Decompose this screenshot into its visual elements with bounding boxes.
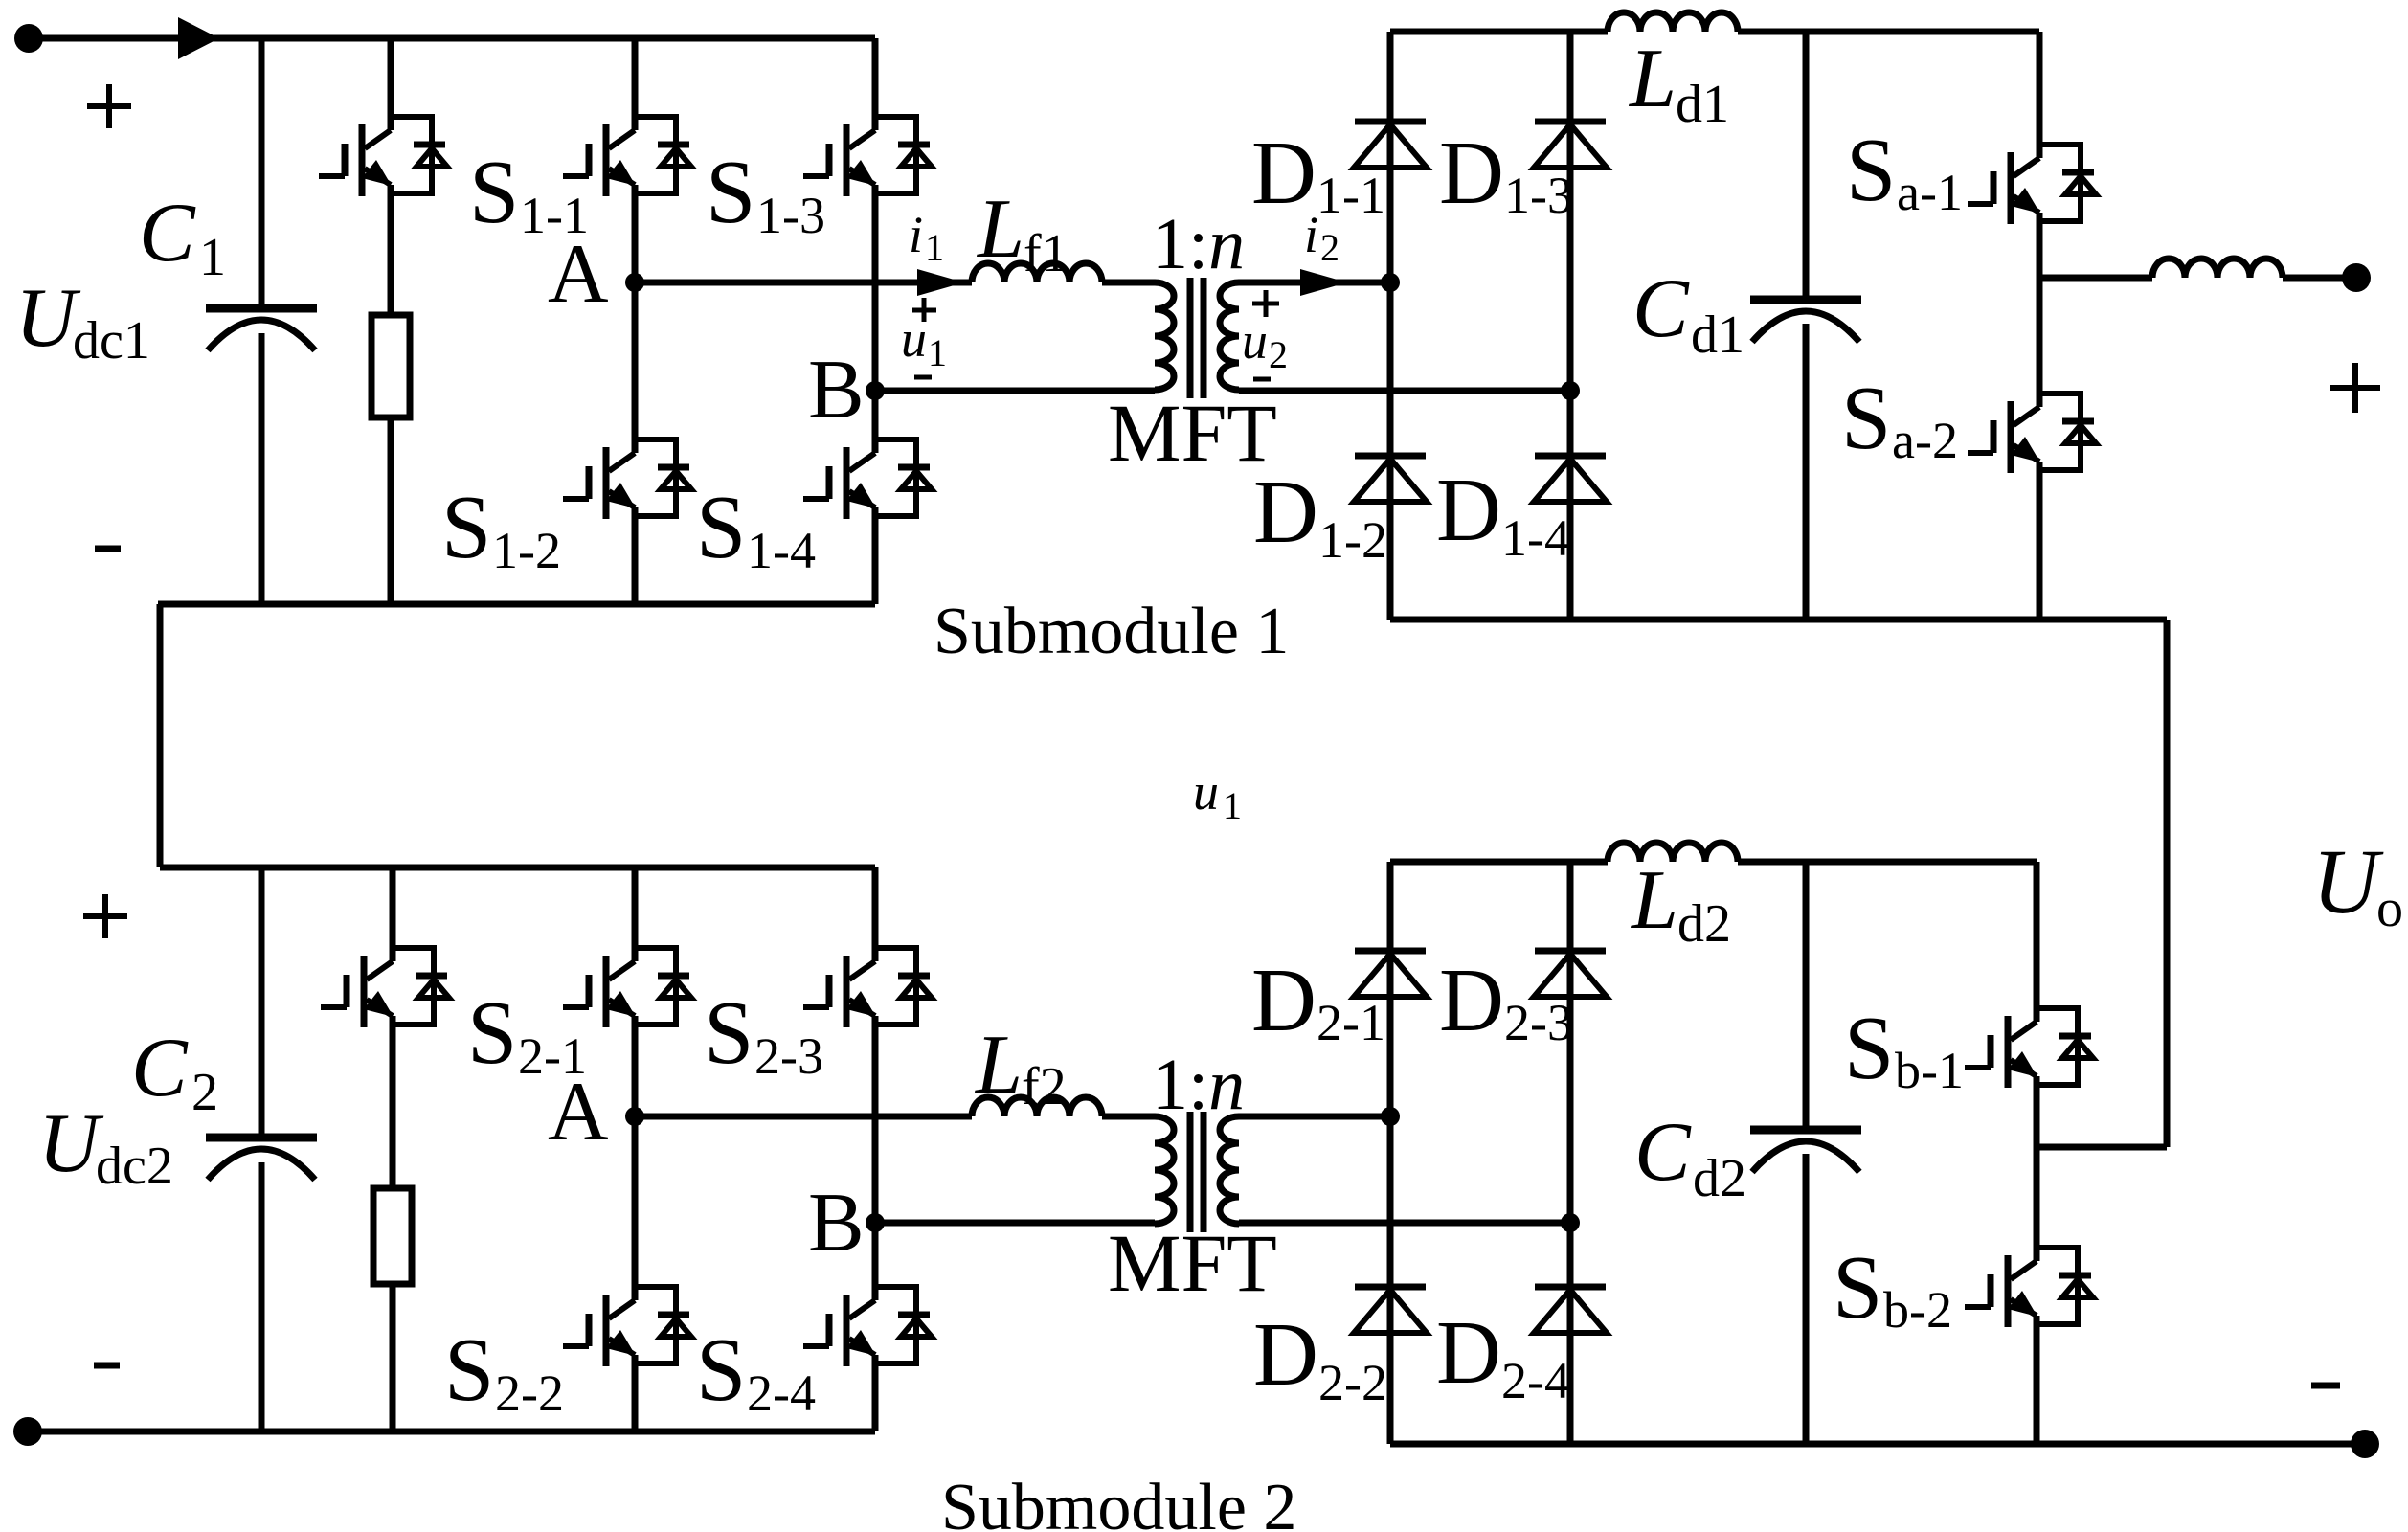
svg-text:1:n: 1:n xyxy=(1152,204,1245,284)
transistor: balancing IGBT 2 xyxy=(321,948,449,1027)
node: transformer1 secondary top junction xyxy=(1381,273,1400,292)
transistor Sa-1 xyxy=(1968,145,2096,224)
svg-text:1: 1 xyxy=(928,331,947,374)
plus sign Udc1 xyxy=(87,84,131,128)
svg-text:L: L xyxy=(974,1019,1023,1112)
wire: Lf1 to transformer 1 xyxy=(1102,280,1155,286)
transistor S1-3 xyxy=(803,117,932,196)
svg-text:1: 1 xyxy=(1223,784,1242,827)
svg-text:C: C xyxy=(1634,1106,1692,1199)
svg-text:b-1: b-1 xyxy=(1895,1042,1964,1099)
transformer 2 primary winding xyxy=(1155,1116,1174,1224)
svg-text:1-1: 1-1 xyxy=(1317,167,1385,224)
svg-text:1: 1 xyxy=(925,226,944,269)
transistor S2-1 xyxy=(563,948,691,1027)
transformer 1 core xyxy=(1190,278,1204,398)
wire: Cd2 branch xyxy=(1803,862,1810,1444)
svg-text:S: S xyxy=(441,478,491,577)
resistor: balancing resistor 1 xyxy=(371,315,410,417)
diode D1-4 xyxy=(1534,456,1607,502)
svg-text:Submodule 1: Submodule 1 xyxy=(934,595,1289,668)
svg-text:U: U xyxy=(38,1097,104,1190)
wire: node A2 to transformer 2 primary xyxy=(635,1114,972,1120)
svg-text:S: S xyxy=(706,143,755,242)
svg-text:S: S xyxy=(1846,121,1896,220)
wire: rectifier 1 top rail xyxy=(1390,29,2039,35)
svg-text:L: L xyxy=(1628,33,1677,125)
wire: leg B submodule 2 xyxy=(872,867,879,1431)
svg-text:2-4: 2-4 xyxy=(1501,1352,1570,1409)
capacitor C2 xyxy=(206,1138,317,1180)
transistor Sb-2 xyxy=(1965,1248,2093,1327)
svg-text:u: u xyxy=(1193,763,1219,821)
minus sign Udc2 xyxy=(94,1363,120,1369)
svg-text:C: C xyxy=(1632,262,1690,355)
wire: series interconnect submodule1 to submodule2 xyxy=(157,604,164,867)
node: output positive terminal xyxy=(2342,263,2371,292)
capacitor C1 xyxy=(206,308,317,350)
svg-text:B: B xyxy=(808,1177,865,1270)
svg-text:A: A xyxy=(548,1066,609,1159)
svg-text:2-2: 2-2 xyxy=(495,1364,564,1422)
svg-text:D: D xyxy=(1253,462,1318,562)
svg-text:Submodule 2: Submodule 2 xyxy=(941,1471,1296,1532)
diode D1-1 xyxy=(1354,122,1427,168)
node B submodule 1 xyxy=(866,381,885,400)
svg-text:u: u xyxy=(901,310,927,368)
svg-text:i: i xyxy=(909,206,923,263)
wire: leg A submodule 1 xyxy=(632,38,639,604)
wire: C1 branch xyxy=(259,38,265,604)
svg-text:D: D xyxy=(1439,951,1504,1050)
node: transformer1 secondary bottom junction xyxy=(1561,381,1580,400)
svg-text:MFT: MFT xyxy=(1108,387,1277,479)
svg-text:D: D xyxy=(1439,124,1504,223)
resistor: balancing resistor 2 xyxy=(373,1188,412,1284)
inductor Lf2 xyxy=(972,1097,1102,1116)
diode D2-4 xyxy=(1534,1287,1607,1333)
wire: submodule 1 top rail xyxy=(29,35,875,42)
plus sign Udc2 xyxy=(83,894,127,938)
minus sign u2 xyxy=(1253,377,1271,382)
svg-text:S: S xyxy=(696,1320,746,1420)
svg-text:C: C xyxy=(131,1022,189,1115)
svg-text:2-3: 2-3 xyxy=(1504,994,1573,1051)
wire: transformer 2 secondary top to rectifier 2 xyxy=(1239,1114,1390,1120)
wire: Lf2 to transformer 2 xyxy=(1102,1114,1155,1120)
svg-text:b-2: b-2 xyxy=(1883,1281,1952,1339)
wire: leg A submodule 2 xyxy=(632,867,639,1431)
svg-text:dc2: dc2 xyxy=(96,1137,173,1196)
transistor S1-4 xyxy=(803,439,932,519)
svg-text:d1: d1 xyxy=(1676,75,1729,134)
wire: transformer 1 secondary top to rectifier xyxy=(1239,280,1390,286)
wire: rectifier 2 right leg xyxy=(1567,862,1574,1444)
diode D1-2 xyxy=(1354,456,1427,502)
transformer 2 secondary winding xyxy=(1220,1116,1239,1224)
svg-text:f2: f2 xyxy=(1022,1057,1067,1116)
svg-text:1-2: 1-2 xyxy=(1318,511,1387,569)
wire: node B2 to transformer 2 primary bottom xyxy=(875,1220,1155,1227)
wire: balancing branch 1 xyxy=(388,38,394,604)
wire: rectifier 2 left leg xyxy=(1387,862,1394,1444)
svg-text:o: o xyxy=(2376,879,2403,938)
current direction arrow on input rail xyxy=(178,17,219,59)
node: transformer2 secondary bottom junction xyxy=(1561,1213,1580,1232)
wire: rectifier 1 right leg xyxy=(1567,32,1574,620)
wire: submodule 2 top rail xyxy=(160,865,875,871)
transistor Sb-1 xyxy=(1965,1008,2093,1088)
wire: balancing branch 2 xyxy=(390,867,396,1431)
svg-text:d2: d2 xyxy=(1677,894,1731,954)
svg-text:1-4: 1-4 xyxy=(747,522,816,579)
transistor S1-1 xyxy=(563,117,691,196)
svg-text:S: S xyxy=(696,478,746,577)
node: DC input 2 negative terminal xyxy=(13,1417,42,1446)
wire: Sa midpoint to output inductor xyxy=(2039,275,2356,282)
wire: node B to transformer 1 primary bottom xyxy=(875,388,1155,394)
plus sign u2 xyxy=(1252,290,1279,317)
svg-text:U: U xyxy=(2312,830,2384,933)
arrow i1 xyxy=(917,269,964,296)
svg-text:2-3: 2-3 xyxy=(754,1027,823,1085)
node B submodule 2 xyxy=(866,1213,885,1232)
capacitor Cd1 xyxy=(1750,300,1861,342)
svg-text:S: S xyxy=(1844,999,1894,1098)
svg-text:S: S xyxy=(1841,369,1891,468)
inductor Lf1 xyxy=(972,263,1102,282)
svg-text:B: B xyxy=(808,344,865,437)
svg-text:D: D xyxy=(1436,1303,1501,1403)
svg-text:2-1: 2-1 xyxy=(1317,994,1385,1051)
svg-text:U: U xyxy=(15,272,81,365)
inductor Ld2 xyxy=(1608,843,1738,862)
transistor Sa-2 xyxy=(1968,394,2096,473)
plus sign output xyxy=(2330,363,2380,413)
node A submodule 2 xyxy=(625,1107,644,1126)
minus sign output xyxy=(2311,1383,2340,1389)
svg-text:a-1: a-1 xyxy=(1897,164,1963,221)
svg-text:2-4: 2-4 xyxy=(747,1364,816,1422)
svg-text:S: S xyxy=(469,143,519,242)
inductor Ld1 xyxy=(1608,12,1738,32)
svg-text:1:n: 1:n xyxy=(1152,1045,1245,1125)
diode D2-3 xyxy=(1534,951,1607,997)
svg-text:S: S xyxy=(467,983,517,1083)
wire: submodule 1 bottom rail xyxy=(158,601,875,608)
svg-text:D: D xyxy=(1436,461,1501,560)
svg-text:2: 2 xyxy=(1269,333,1288,376)
transistor S2-4 xyxy=(803,1287,932,1366)
transistor S2-2 xyxy=(563,1287,691,1366)
diode D2-2 xyxy=(1354,1287,1427,1333)
svg-text:D: D xyxy=(1251,951,1317,1050)
wire: transformer 2 secondary bottom to rectifier 2 xyxy=(1239,1220,1570,1227)
wire: node A to transformer 1 primary xyxy=(635,280,972,286)
svg-text:C: C xyxy=(139,187,196,280)
svg-text:1-2: 1-2 xyxy=(492,522,561,579)
svg-text:1-4: 1-4 xyxy=(1501,509,1570,567)
svg-text:A: A xyxy=(548,228,609,321)
svg-text:a-2: a-2 xyxy=(1892,412,1958,469)
capacitor Cd2 xyxy=(1750,1130,1861,1172)
svg-text:2-2: 2-2 xyxy=(1318,1354,1387,1411)
arrow i2 xyxy=(1300,269,1347,296)
transformer 2 core xyxy=(1190,1112,1204,1232)
wire: Cd1 branch xyxy=(1803,32,1810,620)
wire: rectifier 2 top rail xyxy=(1390,859,2037,866)
wire: Sa leg xyxy=(2037,32,2043,620)
node: DC input 1 positive terminal xyxy=(14,24,43,53)
diode D2-1 xyxy=(1354,951,1427,997)
wire: submodule 2 bottom rail xyxy=(28,1429,875,1435)
svg-text:f1: f1 xyxy=(1024,224,1069,283)
minus sign u1 xyxy=(914,375,932,380)
plus sign u1 xyxy=(912,298,936,322)
svg-text:2: 2 xyxy=(191,1063,218,1122)
svg-text:D: D xyxy=(1253,1305,1318,1405)
svg-text:S: S xyxy=(444,1320,494,1420)
svg-text:d1: d1 xyxy=(1691,305,1744,365)
svg-text:u: u xyxy=(1242,312,1268,370)
transistor S1-2 xyxy=(563,439,691,519)
svg-text:dc1: dc1 xyxy=(73,311,150,371)
svg-text:2: 2 xyxy=(1320,226,1339,269)
wire: Sb midpoint to series link xyxy=(2037,1144,2167,1151)
wire: rectifier 1 bottom rail xyxy=(1390,617,2167,623)
node: transformer2 secondary top junction xyxy=(1381,1107,1400,1126)
diode D1-3 xyxy=(1534,122,1607,168)
wire: C2 branch xyxy=(259,867,265,1431)
svg-text:L: L xyxy=(1630,854,1678,947)
wire: rectifier 1 left leg xyxy=(1387,32,1394,620)
transistor S2-3 xyxy=(803,948,932,1027)
node A submodule 1 xyxy=(625,273,644,292)
svg-text:1-3: 1-3 xyxy=(756,187,825,244)
inductor: output filter submodule 1 xyxy=(2152,259,2283,278)
minus sign Udc1 xyxy=(95,546,121,552)
svg-text:D: D xyxy=(1251,124,1317,223)
svg-text:MFT: MFT xyxy=(1108,1217,1277,1309)
wire: rectifier 2 bottom rail xyxy=(1390,1441,2365,1448)
wire: transformer 1 secondary bottom to rectifier xyxy=(1239,388,1570,394)
node: output negative terminal xyxy=(2351,1430,2379,1458)
svg-text:1-3: 1-3 xyxy=(1504,167,1573,224)
wire: leg B submodule 1 xyxy=(872,38,879,604)
wire: output series link vertical xyxy=(2164,620,2171,1147)
svg-text:d2: d2 xyxy=(1693,1149,1746,1208)
transformer 1 primary winding xyxy=(1155,282,1174,390)
svg-text:S: S xyxy=(704,983,754,1083)
wire: Sb leg xyxy=(2034,862,2040,1444)
svg-text:S: S xyxy=(1833,1238,1882,1338)
svg-text:1: 1 xyxy=(199,228,226,287)
transistor: balancing IGBT 1 xyxy=(319,117,447,196)
svg-text:L: L xyxy=(976,183,1024,276)
transformer 1 secondary winding xyxy=(1220,282,1239,390)
